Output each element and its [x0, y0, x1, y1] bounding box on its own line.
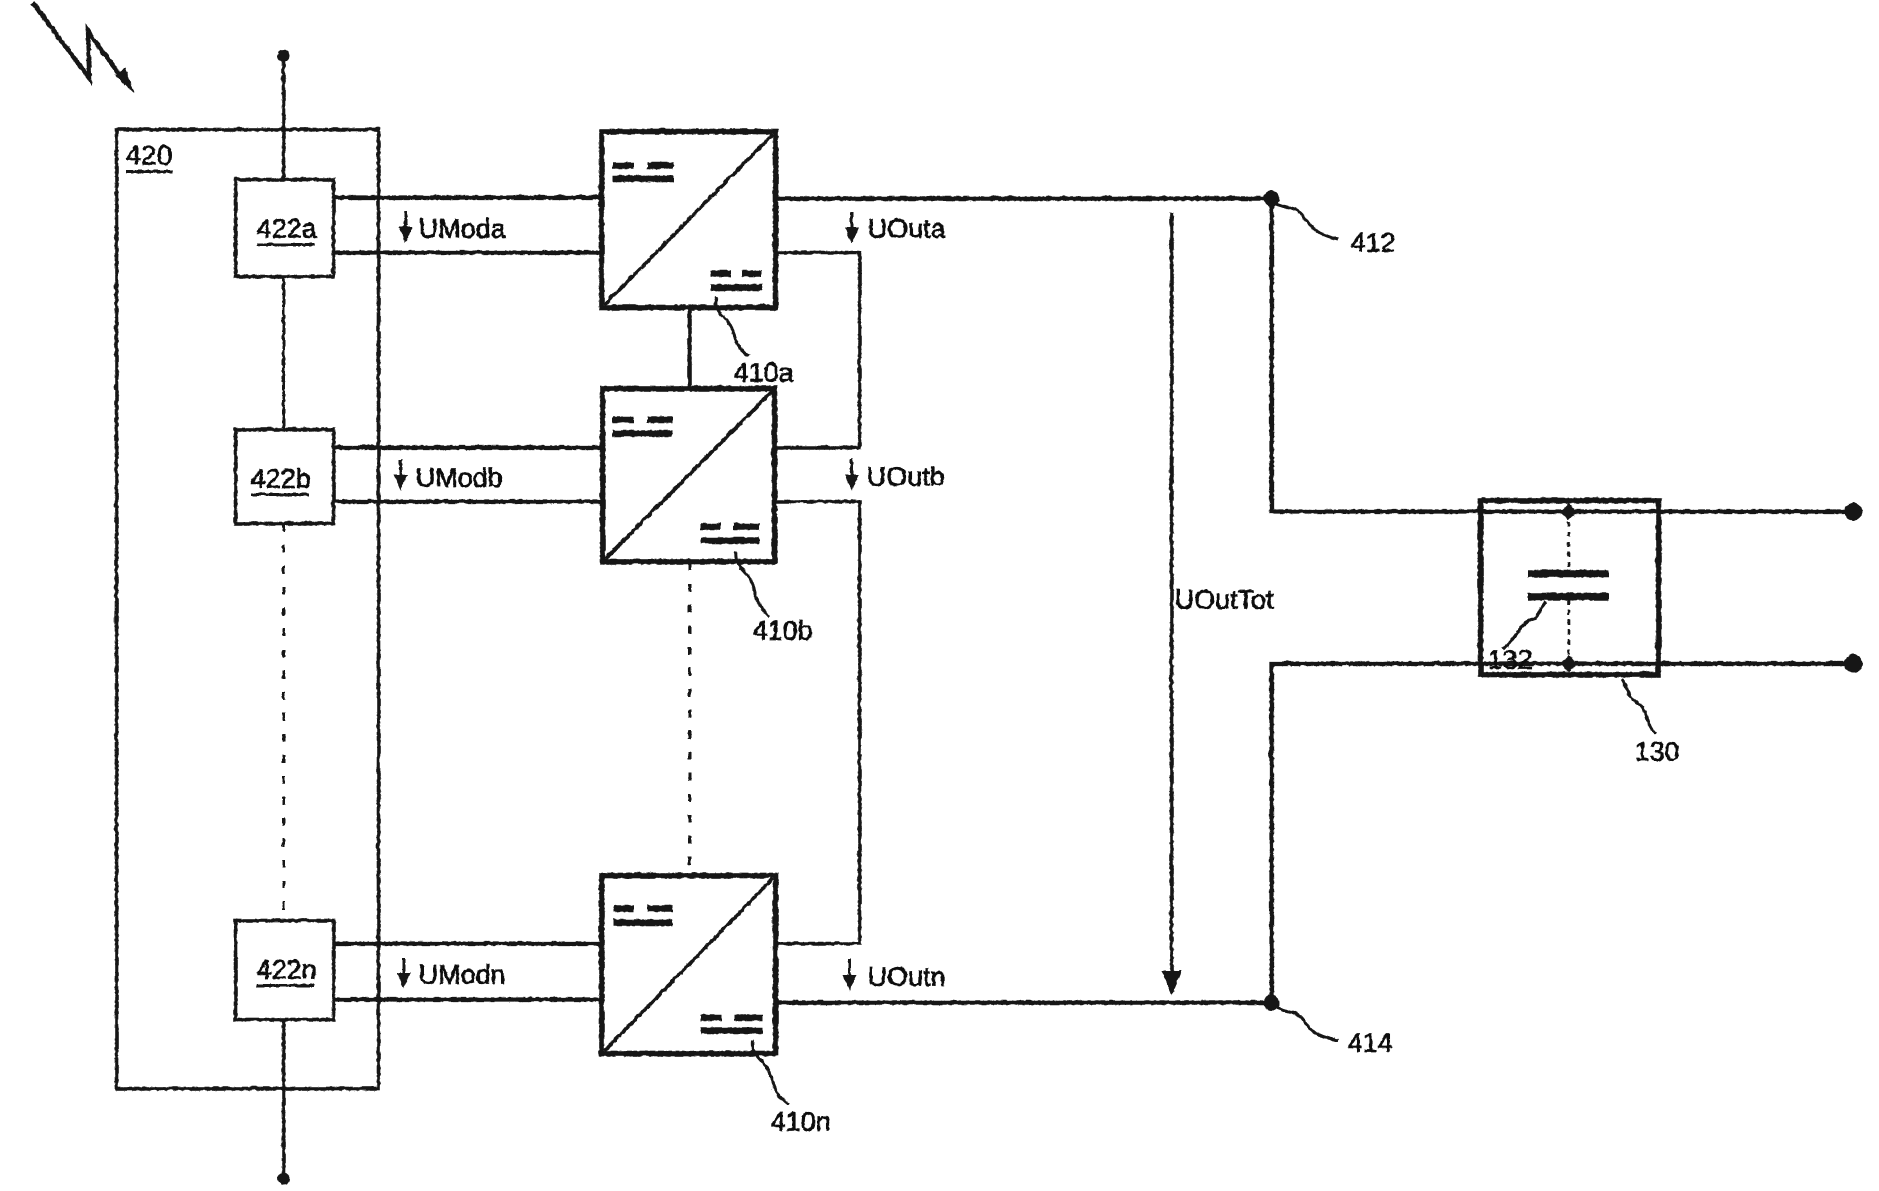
svg-text:422a: 422a	[256, 213, 317, 243]
arrow UOutTot	[1161, 212, 1181, 995]
controller 422b	[235, 429, 333, 523]
wire node 412 to capacitor	[1271, 198, 1480, 511]
leader 414	[1276, 1007, 1338, 1040]
converter 410a	[601, 131, 775, 307]
capacitor 132	[1527, 503, 1608, 672]
label UOutn with arrow	[842, 958, 945, 991]
node terminal bottom right	[1844, 654, 1862, 672]
wire 422n to bottom terminal	[281, 1019, 285, 1176]
label 422n	[256, 954, 316, 985]
leader 410n	[752, 1040, 788, 1104]
box 420	[116, 129, 378, 1088]
wire 410a out to node 412	[775, 196, 1271, 201]
wire 422a to 410a upper	[333, 195, 601, 199]
leader 410b	[735, 551, 769, 616]
wire 422b to 410b lower	[333, 499, 602, 503]
leader 130	[1621, 679, 1655, 733]
label 420	[125, 139, 172, 171]
converter 410n	[601, 875, 775, 1053]
leader 412	[1276, 203, 1338, 239]
label UModn with arrow	[396, 957, 505, 989]
wire 410b lower out	[774, 501, 859, 943]
wire capacitor bottom to terminal	[1480, 661, 1853, 665]
svg-text:420: 420	[125, 139, 172, 170]
svg-text:UOutTot: UOutTot	[1174, 584, 1274, 614]
label UModa with arrow	[398, 211, 506, 243]
dashed wire 410b-410n	[688, 562, 691, 875]
dashed wire 422b-422n	[282, 523, 285, 920]
node 412	[1263, 190, 1279, 206]
wire 422n to 410n upper	[333, 941, 601, 945]
svg-text:UOuta: UOuta	[867, 213, 946, 243]
node terminal top right	[1844, 502, 1862, 520]
svg-text:410b: 410b	[752, 615, 812, 645]
label UOuta with arrow	[844, 211, 946, 243]
wire 422a-422b	[282, 276, 285, 429]
svg-text:412: 412	[1350, 227, 1395, 257]
svg-text:410n: 410n	[770, 1106, 830, 1136]
label UOutb with arrow	[844, 458, 944, 491]
wire 422n to 410n lower	[333, 997, 601, 1001]
node bottom terminal	[277, 1172, 289, 1184]
svg-text:UOutb: UOutb	[866, 461, 944, 491]
svg-text:130: 130	[1634, 736, 1679, 766]
svg-text:422b: 422b	[250, 463, 310, 493]
label UModb with arrow	[393, 459, 502, 492]
label 422a	[256, 213, 317, 244]
label 422b	[250, 463, 310, 494]
converter 410b	[602, 388, 774, 561]
figure pointer arrow	[32, 2, 134, 93]
leader 132	[1502, 601, 1545, 648]
box 130 battery	[1480, 500, 1658, 674]
leader 410a	[715, 296, 748, 355]
node 414	[1263, 994, 1279, 1010]
svg-text:UOutn: UOutn	[867, 961, 945, 991]
node top terminal	[277, 49, 289, 61]
wire 410a-410b	[687, 307, 691, 388]
svg-text:UModb: UModb	[415, 462, 502, 492]
wire top terminal to 422a	[281, 55, 285, 179]
wire 422b to 410b upper	[333, 445, 602, 449]
wire 422a to 410a lower	[333, 250, 601, 254]
svg-text:414: 414	[1347, 1027, 1392, 1057]
svg-text:422n: 422n	[256, 954, 316, 984]
wire node 414 to capacitor	[1271, 663, 1480, 1002]
svg-text:132: 132	[1487, 644, 1532, 674]
controller 422a	[235, 179, 333, 276]
wire 410a lower out	[774, 252, 859, 447]
controller 422n	[235, 920, 333, 1019]
wire capacitor top to terminal	[1480, 509, 1853, 513]
svg-text:410a: 410a	[733, 357, 794, 387]
svg-text:UModa: UModa	[418, 213, 506, 243]
svg-text:UModn: UModn	[418, 959, 505, 989]
wire 410n out to node 414	[775, 1000, 1271, 1005]
